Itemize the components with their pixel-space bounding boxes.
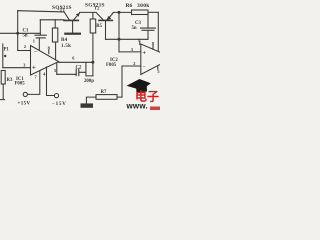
resistor R6 body (132, 10, 149, 15)
node dot mid (118, 38, 121, 41)
svg-text:300k: 300k (137, 3, 150, 9)
svg-text:C3: C3 (135, 21, 141, 26)
wire T1 base down (72, 21, 74, 32)
transistor T2 emitter arrow (106, 16, 111, 20)
wire C3 top riser (147, 15, 149, 29)
wire pin3 line (3, 67, 31, 69)
resistor R7 body (96, 95, 117, 100)
svg-text:200p: 200p (84, 79, 94, 84)
ground bar under T1 (64, 33, 81, 35)
wire rail T1 to T2 (80, 11, 97, 13)
wire rail T2 to R6 node (113, 11, 131, 13)
wire top rail left segment (18, 11, 64, 12)
svg-text:+: + (142, 50, 146, 57)
IC2 pin8 tick (152, 45, 154, 49)
wire T2 base down (105, 21, 107, 39)
wire down to R7 (121, 66, 123, 97)
svg-text:C2: C2 (76, 65, 82, 70)
ground bar R7 (81, 103, 94, 107)
svg-text:−: − (34, 49, 37, 55)
svg-text:2: 2 (133, 61, 135, 66)
IC1 pin4 wire to -15V (47, 67, 55, 96)
wire right vertical to IC2 output (157, 12, 159, 51)
svg-text:−15V: −15V (52, 102, 67, 107)
svg-text:T1: T1 (60, 7, 66, 12)
svg-text:T2: T2 (94, 6, 100, 11)
transistor T1 base bar (64, 19, 78, 21)
svg-text:R7: R7 (101, 90, 107, 95)
svg-text:R5: R5 (96, 24, 102, 29)
svg-text:5n: 5n (23, 33, 28, 38)
wire vertical from top rail to input node (17, 11, 19, 51)
watermark wedge logo (127, 79, 151, 92)
svg-text:+15V: +15V (18, 101, 31, 106)
svg-text:R3: R3 (7, 78, 13, 83)
capacitor C2 plates (75, 69, 77, 76)
terminal circle -15V (54, 94, 58, 98)
wire P1 probe vertical (2, 44, 4, 68)
ground dash bottom left (0, 99, 5, 101)
transistor T1 collector diagonal (64, 12, 69, 20)
wire R6 right lead (148, 11, 158, 13)
op-amp IC2 triangle (141, 44, 161, 75)
svg-text:R4: R4 (61, 38, 68, 43)
IC1 pin8 tick (48, 50, 50, 54)
op-amp IC1 triangle (31, 46, 59, 76)
wire C3 bottom riser (147, 30, 149, 39)
wire C1 top riser (39, 20, 41, 35)
resistor R3 body (1, 71, 5, 85)
wire pin2 feed into IC1 (18, 50, 31, 52)
svg-text:5n: 5n (132, 26, 137, 31)
wire R5 bottom lead down to output dot (92, 33, 94, 76)
watermark red corner (150, 107, 160, 111)
node dot rail R6 (118, 11, 121, 14)
capacitor C3 plates (141, 27, 156, 29)
svg-text:R6: R6 (126, 3, 133, 9)
transistor T1 emitter arrow (76, 13, 80, 17)
svg-text:1: 1 (138, 37, 140, 42)
capacitor C1 plates (35, 34, 46, 36)
wire R3 bottom lead (2, 84, 4, 99)
wire R4 bottom lead to output (55, 42, 57, 60)
svg-text:1: 1 (33, 38, 35, 43)
wire IC2 pin2 from corner (122, 65, 141, 67)
wire IC1 output (59, 61, 93, 63)
IC1 pin5 wire (56, 63, 58, 75)
svg-text:F005: F005 (15, 81, 26, 86)
svg-text:1.5k: 1.5k (61, 44, 71, 49)
wire C1 bottom lead to IC1 pin1 (38, 38, 40, 51)
wire IC2 pin3 (119, 51, 141, 53)
node P1 dot (4, 55, 6, 57)
svg-text:P1: P1 (4, 48, 10, 53)
svg-text:+: + (32, 63, 36, 71)
svg-text:www.: www. (126, 102, 148, 111)
transistor T2 emitter diagonal (107, 13, 113, 20)
transistor T2 base bar (99, 19, 112, 21)
svg-text:2: 2 (24, 44, 26, 49)
resistor R5 body (90, 19, 96, 33)
wire R7 right lead (117, 96, 122, 98)
wire vertical feedback node (118, 12, 120, 52)
wire square bottom connector (86, 72, 93, 76)
IC1 pin7 wire to +15V (28, 71, 40, 95)
transistor T1 emitter diagonal (74, 13, 80, 20)
node dot output-R5 (91, 61, 94, 64)
wire C2 right lead riser (79, 63, 86, 73)
svg-text:−: − (143, 65, 146, 70)
wire base line y20 to T1 (40, 19, 64, 21)
transistor T2 collector diagonal (96, 12, 103, 20)
wire R7 left lead (86, 97, 96, 103)
IC2 pin1 tick (139, 41, 141, 45)
wire R5 top lead (92, 12, 94, 19)
resistor R4 body (52, 28, 57, 42)
IC2 pin5 tick (157, 66, 159, 70)
wire input line P1 to C1 (0, 32, 40, 34)
svg-text:F005: F005 (106, 63, 117, 68)
wire mid horizontal T2base-C3 (106, 38, 149, 40)
node junction dot input (16, 32, 19, 35)
wire R4 top lead (54, 20, 56, 28)
terminal circle +15V (23, 92, 27, 96)
wire pin5 to C2 left lead (57, 73, 76, 75)
